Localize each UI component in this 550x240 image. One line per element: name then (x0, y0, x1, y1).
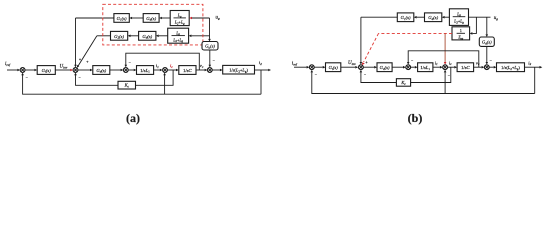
wire S5 to block 1/s(L2+Lg) (a) (212, 69, 223, 72)
block fraction Lg/(L2+Lg) row2 (a) (168, 28, 189, 43)
svg-text:Uinv: Uinv (60, 65, 68, 70)
summing junction S4 capacitor node (a) (163, 68, 168, 73)
red dashed wire from 1/Zeq output (b) (379, 32, 453, 34)
wire output i2 (a) (255, 69, 272, 72)
block Gd(s) feedforward (b) (425, 13, 442, 22)
wire T3 to block 1/sL1 (b) (411, 66, 418, 69)
summing junction S3 (a) (123, 68, 128, 73)
wire ug branch into 1/Zeq (b) (470, 17, 477, 35)
wire ug branch into Gd grid path (b) (486, 17, 489, 37)
wire 1/sC to summing junction S5 (a) (196, 69, 207, 72)
svg-text:ug: ug (216, 16, 221, 21)
wire ug branch to fraction row2 arrow (a) (189, 35, 210, 38)
block 1/sC (a) (179, 66, 196, 75)
block 1/sL1 (b) (418, 63, 433, 72)
wire iref to summing junction T1 (b) (294, 66, 309, 69)
wire output i2 (b) (525, 66, 543, 69)
red dashed diagonal into T2 (b) (362, 33, 379, 65)
wire 1/sC to summing junction T5 (b) (474, 66, 485, 69)
block Gd(s) row2 (a) (139, 31, 156, 40)
block Kc capacitor current feedback gain (a) (118, 81, 136, 89)
svg-text:Gu(s): Gu(s) (205, 44, 215, 50)
block G1(s) feedforward row1 (a) (114, 14, 129, 23)
wire S4 to block 1/sC (a) (167, 69, 178, 72)
wire Kc output to T2 (b) (360, 70, 397, 83)
svg-text:Kc: Kc (400, 80, 406, 86)
summing junction S5 (a) (207, 68, 212, 73)
summing junction T4 capacitor node (b) (443, 65, 448, 70)
wire feedforward row1 vertical into S2 (a) (74, 18, 77, 67)
svg-text:Gi(s): Gi(s) (42, 68, 52, 74)
summing junction S1 (a) (20, 68, 25, 73)
block fraction Lg/(L2+Lg) (b) (449, 9, 468, 26)
wire T2 to block Gd main (b) (363, 66, 377, 69)
summing junction S2 (a) (73, 68, 78, 73)
block Gd(s) delay (a) (93, 66, 110, 75)
block Gi(s) current regulator (a) (37, 66, 55, 75)
wire i2 feedback branch up into S4 (a) (163, 73, 166, 95)
wire outer i2 feedback loop to T1 (b) (311, 70, 535, 94)
block 1/s(L2+Lg) (b) (497, 63, 525, 72)
red dashed highlight box (a) (103, 4, 203, 45)
svg-text:1/sC: 1/sC (183, 68, 192, 73)
wire Gi to summing junction S2 with red arrowhead (a) (55, 69, 73, 72)
summing junction T3 (b) (406, 65, 411, 70)
wire feedforward row1 vertical into T2 (b) (360, 17, 363, 64)
block 1/s(L2+Lg) (a) (223, 65, 255, 74)
wire Gd to summing junction T3 (b) (392, 66, 406, 69)
block Gd(s) main row delay (b) (377, 63, 392, 72)
block fraction 1/Zeq (b) (452, 27, 470, 41)
wire ic tap down to Kc (a) (136, 70, 174, 85)
wire Gd1 to G1 leftward arrow (a) (129, 17, 143, 20)
wire S2 to block Gd (a) (78, 69, 93, 72)
block 1/sC (b) (457, 63, 474, 72)
FIGURE-B (292, 9, 543, 94)
svg-text:Gi(s): Gi(s) (329, 65, 339, 71)
svg-text:G2(s): G2(s) (114, 34, 124, 40)
wire vc feedback from node vc to T3 (b) (407, 51, 479, 67)
block Kc capacitor current feedback gain (b) (396, 79, 410, 87)
svg-text:Gd(s): Gd(s) (96, 68, 106, 74)
wire Gd to summing junction S3 (a) (110, 69, 124, 72)
wire fraction row1 to Gd1 leftward arrow (a) (159, 17, 170, 20)
svg-text:1: 1 (460, 29, 462, 33)
wire i2 feedback branch up into T4 (b) (444, 70, 447, 94)
wire ug horizontal to fraction (b) (469, 16, 491, 18)
svg-text:Gd(s): Gd(s) (380, 65, 390, 71)
svg-text:1/sL1: 1/sL1 (140, 68, 150, 74)
svg-text:1/sL1: 1/sL1 (420, 65, 430, 71)
svg-text:G1(s): G1(s) (401, 15, 411, 21)
svg-text:Gd(s): Gd(s) (428, 15, 438, 21)
block 1/sL1 (a) (137, 66, 154, 75)
red solid wire branch down into T4 (b) (444, 33, 447, 64)
wire row1 left horizontal to S2 vertical (a) (76, 17, 114, 19)
wire row2 left horizontal to diagonal (a) (97, 35, 111, 37)
wire fraction to Gd leftward arrow (b) (442, 16, 450, 19)
svg-text:(a): (a) (126, 111, 140, 125)
block G1(s) feedforward (b) (397, 13, 414, 22)
wire Kc output to S2 (a) (74, 73, 118, 86)
svg-text:Kc: Kc (124, 83, 130, 89)
block G2(s) feedforward row2 (a) (111, 31, 128, 40)
wire ug vertical down into Gu (a) (208, 18, 211, 42)
summing junction T1 (b) (309, 65, 314, 70)
wire Gd2 to G2 leftward arrow (a) (128, 35, 139, 38)
svg-text:1/s(L2+Lg): 1/s(L2+Lg) (501, 65, 520, 71)
wire T1 to block Gi (b) (314, 66, 325, 69)
wire ug to fraction row1 red arrowhead (a) (189, 17, 209, 20)
wire outer i2 feedback loop to S1 (a) (21, 73, 261, 95)
wire i2 tap down (b) (534, 67, 536, 93)
wire T5 to block 1/s(L2+Lg) (b) (489, 66, 496, 69)
svg-text:(b): (b) (408, 111, 423, 125)
wire vc feedback from node vc to S3 (a) (125, 53, 200, 70)
block fraction Lg/(L2+Lg) row1 (a) (170, 11, 189, 26)
wire Gd to G1 leftward arrow (b) (414, 16, 425, 19)
svg-text:Gd(s): Gd(s) (142, 34, 152, 40)
wire S3 to block 1/sL1 (a) (128, 69, 136, 72)
svg-text:Uinv: Uinv (348, 61, 356, 66)
wire row1 left horizontal (b) (361, 16, 397, 18)
wire i2 tap down (a) (260, 70, 262, 94)
FIGURE-A (5, 4, 271, 94)
summing junction T5 (b) (484, 65, 489, 70)
block Gi(s) current regulator (b) (326, 63, 341, 72)
svg-text:1/s(L2+Lg): 1/s(L2+Lg) (229, 68, 248, 74)
block Gd(s) grid voltage path (b) (479, 37, 494, 46)
wire fraction row2 to Gd2 leftward arrow (a) (156, 35, 168, 38)
svg-text:1/sC: 1/sC (461, 65, 470, 70)
wire iref to summing junction S1 (a) (7, 69, 20, 72)
wire 1/sL1 to summing junction S4 (a) (154, 69, 163, 72)
wire 1/sL1 to summing junction T4 (b) (433, 66, 443, 69)
svg-text:ug: ug (494, 16, 499, 21)
wire Gi to summing junction T2 (b) (341, 66, 358, 69)
svg-text:G1(s): G1(s) (117, 16, 127, 22)
wire S1 to block Gi (a) (25, 69, 37, 72)
wire ic tap down to Kc (b) (411, 67, 451, 82)
wire Gu output down into S5 (a) (209, 50, 212, 67)
block Gu(s) grid voltage path (a) (202, 42, 218, 51)
block Gd(s) row1 (a) (143, 14, 159, 23)
wire T4 to block 1/sC (b) (448, 66, 458, 69)
svg-text:Gd(s): Gd(s) (482, 40, 492, 46)
svg-text:Gd(s): Gd(s) (146, 16, 156, 22)
wire feedforward row2 diagonal into S2 (a) (77, 36, 97, 68)
wire Gd grid path output into T5 (b) (486, 46, 489, 64)
summing junction T2 (b) (359, 65, 364, 70)
